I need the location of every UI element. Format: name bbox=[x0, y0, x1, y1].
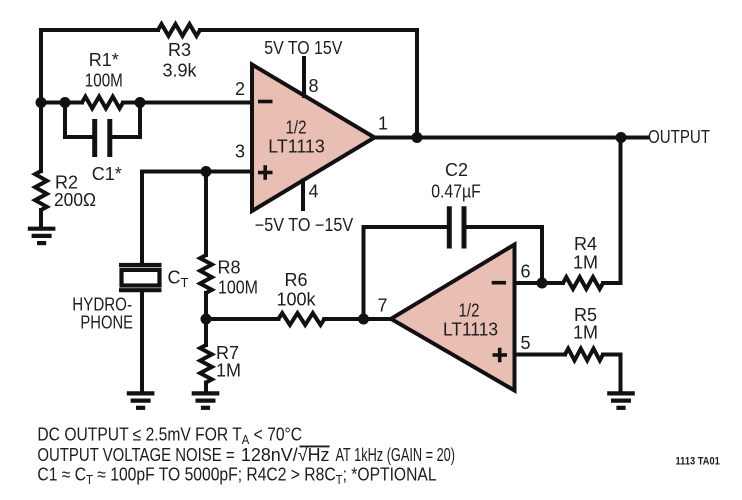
wire pin 3 input bbox=[142, 170, 252, 174]
note line 2 overline bbox=[300, 445, 330, 447]
svg-text:3: 3 bbox=[235, 142, 245, 162]
svg-text:2: 2 bbox=[235, 79, 245, 99]
node junction feedback bbox=[412, 132, 423, 143]
wire junction to R7 bbox=[204, 319, 208, 345]
wire C1 right branch bbox=[113, 103, 141, 138]
wire junction to R6 bbox=[206, 317, 278, 321]
svg-text:7: 7 bbox=[377, 296, 387, 316]
resistor R7 bbox=[200, 345, 212, 383]
svg-text:5: 5 bbox=[521, 333, 531, 353]
wire hydrophone bottom bbox=[140, 292, 144, 392]
resistor R4 bbox=[563, 277, 603, 289]
ground below R7 bbox=[192, 391, 220, 395]
wire R1 to pin 2 bbox=[123, 101, 252, 105]
wire R8 to junction bbox=[204, 293, 208, 319]
svg-text:1M: 1M bbox=[216, 361, 241, 381]
svg-text:1/2: 1/2 bbox=[286, 118, 307, 138]
svg-text:128nV/√Hz: 128nV/√Hz bbox=[241, 445, 330, 465]
svg-text:C2: C2 bbox=[445, 160, 468, 180]
resistor R3 bbox=[158, 24, 200, 36]
op-amp U1a plus sign bbox=[258, 171, 273, 175]
resistor R8 bbox=[200, 255, 212, 293]
wire top feedback right segment bbox=[200, 30, 417, 138]
svg-text:LT1113: LT1113 bbox=[268, 137, 325, 157]
svg-text:R1*: R1* bbox=[89, 50, 119, 70]
svg-text:OUTPUT: OUTPUT bbox=[648, 127, 710, 147]
node junction C1 left bbox=[60, 97, 71, 108]
node junction C2 left bbox=[358, 314, 369, 325]
svg-text:0.47µF: 0.47µF bbox=[431, 182, 481, 202]
svg-text:HYDRO-: HYDRO- bbox=[72, 295, 132, 315]
svg-text:AT 1kHz (GAIN = 20): AT 1kHz (GAIN = 20) bbox=[336, 445, 456, 465]
svg-text:100M: 100M bbox=[85, 71, 123, 91]
wire pin 8 supply bbox=[302, 58, 306, 96]
svg-text:3.9k: 3.9k bbox=[162, 61, 197, 81]
wire inverting input node bbox=[41, 101, 82, 105]
resistor R6 bbox=[278, 313, 324, 325]
svg-text:C1*: C1* bbox=[92, 164, 122, 184]
wire pin 5 bbox=[515, 353, 566, 357]
wire output bbox=[375, 136, 648, 140]
wire pin 6 bbox=[515, 281, 564, 285]
svg-text:R8: R8 bbox=[218, 258, 241, 278]
svg-text:PHONE: PHONE bbox=[80, 313, 133, 333]
op-amp U1b plus sign bbox=[493, 353, 508, 357]
wire C1 left branch bbox=[65, 103, 92, 138]
op-amp U1a body bbox=[252, 65, 375, 212]
svg-text:1/2: 1/2 bbox=[459, 301, 480, 321]
svg-text:4: 4 bbox=[309, 182, 319, 202]
node junction left bbox=[36, 97, 47, 108]
resistor R5 bbox=[565, 349, 603, 361]
svg-text:1M: 1M bbox=[573, 253, 598, 273]
wire R4 to output node bbox=[603, 138, 621, 284]
wire top feedback left segment bbox=[41, 30, 158, 103]
svg-text:LT1113: LT1113 bbox=[443, 320, 498, 340]
resistor R1 bbox=[82, 97, 123, 109]
svg-text:1: 1 bbox=[378, 114, 388, 134]
svg-text:1113 TA01: 1113 TA01 bbox=[676, 456, 720, 468]
svg-text:8: 8 bbox=[309, 76, 319, 96]
wire C2 left branch bbox=[364, 227, 448, 319]
wire pin3 node to R8 bbox=[204, 172, 208, 256]
op-amp U1a minus sign bbox=[258, 100, 273, 104]
op-amp U1b minus sign bbox=[492, 281, 506, 285]
svg-text:C1 ≈ CT ≈ 100pF TO 5000pF; R4C: C1 ≈ CT ≈ 100pF TO 5000pF; R4C2 > R8CT; … bbox=[37, 465, 436, 488]
wire pin 4 supply bbox=[301, 181, 305, 209]
svg-text:OUTPUT VOLTAGE NOISE =: OUTPUT VOLTAGE NOISE = bbox=[37, 445, 234, 465]
svg-text:100k: 100k bbox=[276, 290, 316, 310]
svg-text:R3: R3 bbox=[168, 40, 191, 60]
svg-text:200Ω: 200Ω bbox=[54, 190, 96, 210]
ground below hydrophone bbox=[127, 391, 155, 395]
ground below R5 bbox=[607, 391, 635, 395]
resistor R2 bbox=[35, 171, 47, 210]
node junction C1 right bbox=[135, 97, 146, 108]
svg-text:100M: 100M bbox=[218, 278, 258, 298]
node junction R8 top bbox=[201, 166, 212, 177]
svg-text:DC OUTPUT ≤ 2.5mV FOR TA < 70°: DC OUTPUT ≤ 2.5mV FOR TA < 70°C bbox=[37, 425, 302, 448]
svg-text:−5V TO −15V: −5V TO −15V bbox=[255, 215, 353, 235]
node junction pin 6 bbox=[537, 278, 548, 289]
wire R7 to ground bbox=[204, 383, 208, 392]
wire hydrophone top bbox=[140, 172, 144, 264]
svg-text:5V TO 15V: 5V TO 15V bbox=[264, 38, 342, 58]
hydrophone transducer CT bbox=[119, 263, 162, 267]
svg-text:1M: 1M bbox=[573, 323, 598, 343]
svg-text:6: 6 bbox=[521, 262, 531, 282]
wire C2 right branch bbox=[466, 227, 542, 283]
svg-text:R6: R6 bbox=[284, 270, 307, 290]
wire R2 to ground bbox=[39, 210, 43, 227]
capacitor C2 bbox=[447, 206, 452, 248]
ground below R2 bbox=[28, 227, 56, 231]
op-amp U1b body bbox=[391, 245, 515, 391]
wire left node to R2 bbox=[39, 103, 43, 172]
svg-text:R4: R4 bbox=[574, 234, 597, 254]
capacitor C1 bbox=[92, 119, 97, 157]
node junction output bbox=[616, 132, 627, 143]
wire R5 to ground bbox=[603, 355, 621, 392]
node junction R7 R6 bbox=[201, 314, 212, 325]
wire R6 to pin 7 bbox=[324, 317, 391, 321]
